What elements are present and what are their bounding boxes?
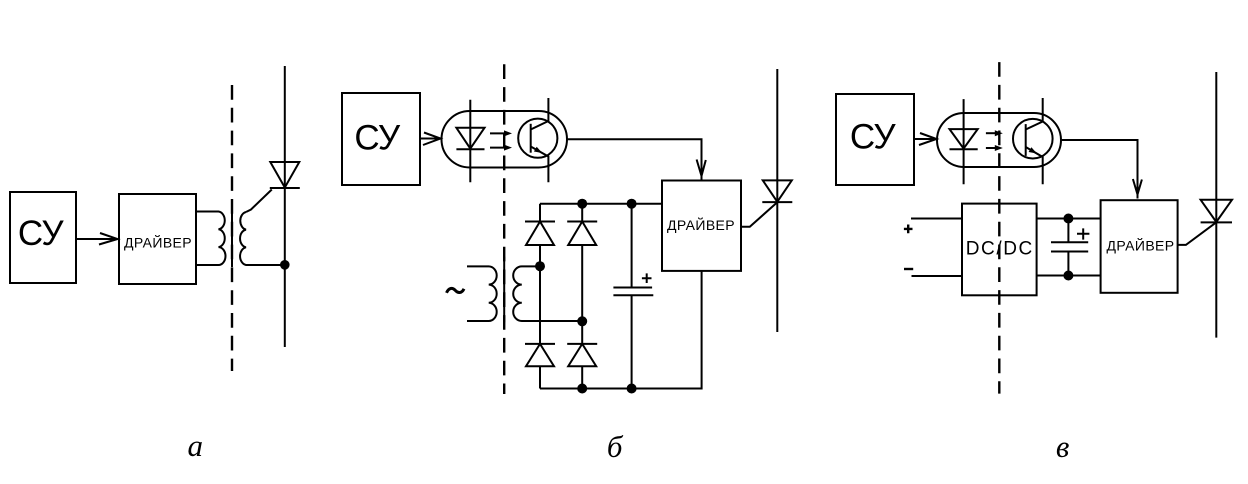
svg-text:в: в: [1056, 429, 1069, 464]
svg-text:ДРАЙВЕР: ДРАЙВЕР: [124, 234, 192, 251]
svg-text:DC/DC: DC/DC: [966, 238, 1034, 259]
svg-text:СУ: СУ: [18, 214, 65, 253]
svg-text:СУ: СУ: [850, 118, 897, 157]
svg-text:ДРАЙВЕР: ДРАЙВЕР: [667, 216, 735, 233]
svg-text:а: а: [188, 428, 204, 463]
svg-text:СУ: СУ: [354, 119, 401, 158]
svg-text:ДРАЙВЕР: ДРАЙВЕР: [1106, 236, 1174, 253]
svg-text:б: б: [607, 429, 624, 464]
